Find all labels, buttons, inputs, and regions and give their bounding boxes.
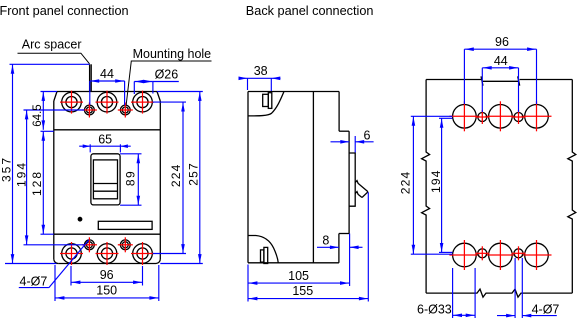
dim 194 (plan left) bbox=[429, 118, 452, 252]
dim 150 (front bottom) bbox=[55, 265, 159, 301]
dim 257 (front right) bbox=[157, 92, 203, 264]
svg-text:89: 89 bbox=[124, 170, 138, 186]
dim 6 (pad) bbox=[331, 128, 374, 152]
svg-text:44: 44 bbox=[494, 54, 508, 68]
bottom clip detail bbox=[261, 247, 268, 263]
side profile outline bbox=[248, 92, 349, 263]
drill hole Ø33 bottom 3 bbox=[522, 240, 552, 270]
dim 155 (side bottom) bbox=[248, 192, 368, 301]
terminal hole top 2 (dbl circle) bbox=[96, 91, 119, 114]
svg-text:128: 128 bbox=[30, 170, 44, 196]
terminal hole bottom 2 (dbl circle) bbox=[96, 242, 119, 265]
mounting hole top 1 bbox=[82, 103, 97, 118]
dim 224 (plan left) bbox=[399, 116, 453, 254]
dim 6-Ø33 (plan bottom) bbox=[417, 268, 475, 318]
svg-text:194: 194 bbox=[429, 169, 443, 193]
mounting hole top 2 bbox=[118, 103, 133, 118]
drill hole Ø33 bottom 2 bbox=[485, 240, 515, 270]
terminal hole bottom 1 (dbl circle) bbox=[60, 242, 83, 265]
busbar stub (broken) bbox=[355, 181, 368, 198]
dim 44 (plan) bbox=[482, 54, 518, 112]
svg-text:155: 155 bbox=[292, 284, 313, 298]
breaker body outline (front view) bbox=[54, 92, 161, 264]
svg-text:Mounting hole: Mounting hole bbox=[133, 47, 212, 61]
label: Mounting hole bbox=[126, 47, 211, 106]
top clip detail bbox=[263, 93, 272, 109]
svg-text:6: 6 bbox=[364, 128, 371, 142]
mounting plane line bbox=[312, 92, 314, 263]
dim 4-Ø7 (plan bottom) bbox=[497, 258, 559, 318]
dim 65 (handle width) bbox=[79, 133, 131, 153]
dim 38 (side top) bbox=[239, 64, 281, 91]
dim 128 (left) bbox=[30, 131, 54, 234]
dim 357 (left) bbox=[0, 64, 90, 263]
svg-text:96: 96 bbox=[495, 35, 509, 49]
arc spacer (double line) bbox=[90, 64, 92, 91]
drill hole Ø33 top 3 bbox=[522, 101, 552, 131]
svg-text:194: 194 bbox=[15, 161, 29, 187]
svg-text:Ø26: Ø26 bbox=[155, 68, 179, 82]
svg-text:224: 224 bbox=[399, 171, 413, 195]
terminal hole top 3 (dbl circle) bbox=[131, 91, 154, 114]
mounting hole bottom 2 bbox=[118, 237, 133, 252]
svg-text:96: 96 bbox=[100, 268, 114, 282]
svg-text:150: 150 bbox=[96, 284, 117, 298]
indicator dot bbox=[78, 217, 83, 222]
svg-text:8: 8 bbox=[322, 233, 329, 247]
drill hole Ø7 bottom 2 bbox=[512, 246, 526, 260]
label plate bbox=[98, 221, 152, 229]
drill hole Ø7 top 2 bbox=[512, 110, 526, 124]
dim 224 (front right) bbox=[153, 102, 186, 253]
svg-text:6-Ø33: 6-Ø33 bbox=[417, 303, 452, 317]
top terminal strip boundary bbox=[54, 129, 161, 131]
dim 8 (pad step) bbox=[317, 233, 363, 286]
drill hole Ø7 bottom 1 bbox=[475, 246, 489, 260]
drill hole Ø7 top 1 bbox=[475, 110, 489, 124]
top recess curve bbox=[248, 92, 284, 116]
title: Front panel connection bbox=[0, 4, 129, 18]
dim Ø26 (top) bbox=[134, 68, 179, 94]
svg-text:38: 38 bbox=[254, 64, 268, 78]
drill hole Ø33 top 1 bbox=[449, 101, 479, 131]
drill hole Ø33 bottom 1 bbox=[449, 240, 479, 270]
svg-text:65: 65 bbox=[98, 133, 112, 147]
handle toggle bbox=[93, 160, 117, 199]
svg-text:4-Ø7: 4-Ø7 bbox=[20, 275, 48, 289]
svg-text:105: 105 bbox=[288, 269, 309, 283]
label: Arc spacer bbox=[18, 37, 90, 64]
mounting hole bottom 1 bbox=[82, 237, 97, 252]
dim 89 (handle height) bbox=[120, 154, 141, 205]
terminal strap plate bbox=[349, 153, 355, 206]
title: Back panel connection bbox=[246, 4, 374, 18]
svg-text:Front panel connection: Front panel connection bbox=[0, 4, 129, 18]
terminal hole bottom 3 (dbl circle) bbox=[131, 242, 154, 265]
drill hole Ø33 top 2 bbox=[485, 101, 515, 131]
svg-text:64.5: 64.5 bbox=[32, 104, 44, 126]
dim 96 (front bottom) bbox=[71, 266, 143, 286]
svg-text:357: 357 bbox=[0, 156, 14, 182]
label 4-Ø7 (front) bbox=[19, 240, 89, 289]
svg-text:44: 44 bbox=[100, 67, 114, 81]
svg-text:Arc spacer: Arc spacer bbox=[22, 37, 82, 51]
dim 96 (plan) bbox=[464, 35, 536, 104]
svg-text:Back panel connection: Back panel connection bbox=[246, 4, 374, 18]
dim 44 (top) bbox=[90, 67, 125, 105]
panel outline (broken edges) bbox=[422, 76, 576, 297]
dim 105 (side bottom) bbox=[248, 265, 349, 302]
dim 64.5 (left) bbox=[32, 92, 57, 130]
bottom terminal strip boundary bbox=[54, 233, 161, 235]
dim 194 (left) bbox=[15, 110, 85, 245]
terminal hole top 1 (dbl circle) bbox=[60, 91, 83, 114]
handle bezel bbox=[91, 154, 120, 205]
svg-text:4-Ø7: 4-Ø7 bbox=[532, 303, 560, 317]
bottom recess curve bbox=[248, 236, 278, 264]
svg-text:224: 224 bbox=[169, 163, 183, 187]
svg-text:257: 257 bbox=[187, 162, 201, 186]
